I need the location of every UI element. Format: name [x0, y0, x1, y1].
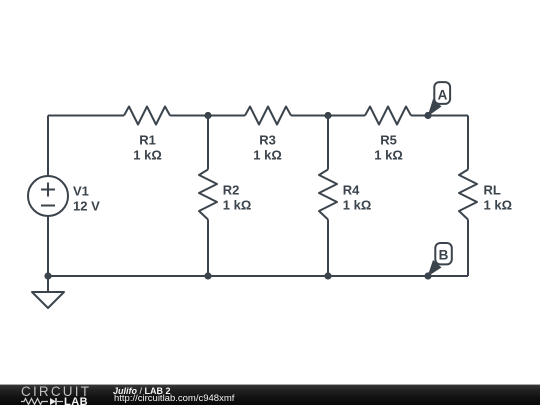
svg-text:1 kΩ: 1 kΩ [484, 198, 513, 213]
resistor R3 [245, 107, 291, 125]
junction top R4 [324, 112, 331, 119]
junction bottom R2 [204, 272, 211, 279]
footer bar [0, 384, 540, 405]
wire top rail between R3 and R5 [291, 115, 365, 117]
svg-text:B: B [439, 248, 449, 263]
junction bottom R4 [324, 272, 331, 279]
resistor R1 [124, 107, 170, 125]
wire R2 lower lead [207, 220, 209, 277]
svg-text:R1: R1 [139, 133, 156, 148]
svg-text:R3: R3 [259, 133, 276, 148]
node B [435, 243, 452, 264]
voltage source V1 [28, 176, 68, 216]
resistor RL [459, 170, 477, 220]
junction top R2 [204, 112, 211, 119]
svg-text:R2: R2 [223, 183, 240, 198]
wire top rail between R1 and R3 [170, 115, 245, 117]
wire left vertical below source [47, 216, 49, 276]
wire top rail right segment to corner [411, 115, 468, 117]
junction ground [44, 272, 51, 279]
svg-text:1 kΩ: 1 kΩ [223, 198, 252, 213]
junction node B [424, 272, 431, 279]
svg-text:R4: R4 [343, 183, 360, 198]
node B pointer [428, 260, 442, 277]
wire R4 upper lead [327, 116, 329, 170]
svg-text:A: A [438, 87, 448, 102]
svg-text:1 kΩ: 1 kΩ [253, 148, 282, 163]
svg-text:V1: V1 [73, 184, 89, 199]
wire bottom rail [48, 275, 468, 277]
resistor R4 [319, 170, 337, 220]
svg-text:RL: RL [484, 183, 501, 198]
wire right vertical above RL [467, 116, 469, 170]
node A pointer [428, 99, 442, 117]
wire R4 lower lead [327, 220, 329, 277]
wire R2 upper lead [207, 116, 209, 170]
wire left vertical above source [47, 116, 49, 177]
resistor R2 [199, 170, 217, 220]
wire right vertical below RL [467, 220, 469, 277]
wire top rail left segment [48, 115, 124, 117]
logo resistor+diode LAB row [21, 397, 96, 405]
ground [47, 276, 49, 292]
node A [434, 82, 450, 104]
svg-text:1 kΩ: 1 kΩ [133, 148, 162, 163]
svg-text:1 kΩ: 1 kΩ [343, 198, 372, 213]
svg-text:1 kΩ: 1 kΩ [374, 148, 403, 163]
svg-text:12 V: 12 V [73, 199, 100, 214]
logo wordmark CIRCUIT [21, 386, 91, 398]
resistor R5 [365, 107, 411, 125]
svg-text:R5: R5 [380, 133, 397, 148]
svg-text:LAB: LAB [64, 397, 88, 405]
footer title text [113, 387, 171, 396]
junction node A [424, 112, 431, 119]
